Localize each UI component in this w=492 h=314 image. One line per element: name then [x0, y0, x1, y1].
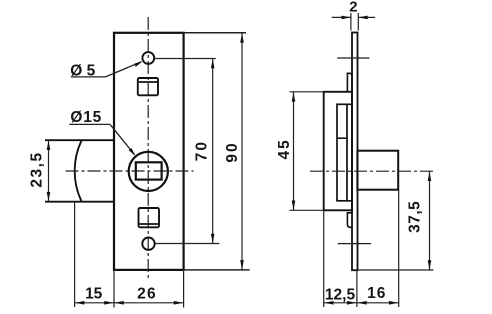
extension line from bottom circle for 70 — [155, 243, 219, 245]
dimension 2 arrow lines — [332, 16, 351, 18]
label D5 underline — [71, 76, 106, 78]
dimension 23,5 line — [48, 140, 50, 202]
dimension 90 line — [241, 33, 243, 270]
dimension 37,5 line — [429, 171, 431, 270]
side view top tab — [347, 73, 352, 92]
horizontal centerline front view — [66, 170, 194, 172]
side view bottom hole centerline — [338, 243, 371, 245]
side view bottom tab — [347, 213, 352, 228]
svg-text:16: 16 — [367, 285, 386, 302]
dimension 70 line — [212, 59, 214, 244]
svg-text:12,5: 12,5 — [325, 286, 356, 303]
side view inner box divider — [337, 137, 347, 139]
side view inner box bottom stub to plate — [347, 200, 352, 202]
extension line 12,5 left (body left edge extended) — [323, 210, 325, 307]
svg-text:26: 26 — [137, 286, 157, 303]
latch bolt top line with 23,5 extension — [45, 139, 114, 141]
dimension 12,5 16 line — [324, 302, 399, 304]
side view faceplate — [352, 33, 358, 271]
label D5 leader arrow — [106, 62, 142, 77]
svg-text:70: 70 — [193, 140, 210, 161]
front view lock body rectangle — [114, 33, 184, 270]
extension line from top circle for 70 — [155, 58, 216, 60]
latch bolt bottom line with 23,5 extension — [45, 201, 114, 203]
extension lines 45 — [290, 91, 324, 93]
svg-text:15: 15 — [85, 286, 103, 303]
svg-text:Ø15: Ø15 — [70, 109, 102, 126]
svg-text:23,5: 23,5 — [28, 151, 45, 187]
dimension 2 extension lines — [350, 13, 352, 31]
extension line 37,5 bottom (plate bottom extended) — [358, 269, 434, 271]
side view inner box top stub to plate — [347, 103, 352, 105]
lower follower hub — [139, 208, 160, 227]
extension line 12,5/16 middle (plate right edge extended) — [356, 271, 358, 308]
latch bolt curved face — [75, 140, 82, 202]
side view body box — [324, 92, 352, 211]
bottom hole circle — [142, 238, 154, 250]
side view main centerline — [310, 170, 434, 172]
extension line 15/26 middle (rect left edge extended) — [113, 270, 115, 308]
90 dimension top extension line (rect top edge extended) — [184, 32, 246, 34]
big circle D15 — [129, 152, 168, 191]
90 dimension bottom extension line (rect bottom edge extended) — [184, 269, 250, 271]
top follower hub — [138, 78, 158, 95]
side view latch bolt — [357, 151, 398, 190]
top hole circle D5 — [142, 52, 154, 64]
svg-text:37,5: 37,5 — [406, 201, 423, 233]
extension line 26 right (rect right edge extended) — [183, 270, 185, 308]
svg-text:90: 90 — [224, 141, 241, 162]
extension line 16 right (latch right edge extended) — [398, 190, 400, 307]
label D15 underline — [69, 123, 110, 125]
dimension 45 line — [293, 92, 295, 211]
side view top hole centerline — [337, 57, 369, 59]
side view inner box — [337, 104, 347, 201]
spindle square hole — [136, 162, 162, 179]
dimension 15 26 line — [75, 302, 184, 304]
svg-text:45: 45 — [276, 138, 293, 159]
vertical centerline front view — [147, 17, 149, 279]
label D15 leader arrow — [110, 124, 135, 154]
extension line 15 left (from latch tip) — [74, 202, 76, 307]
